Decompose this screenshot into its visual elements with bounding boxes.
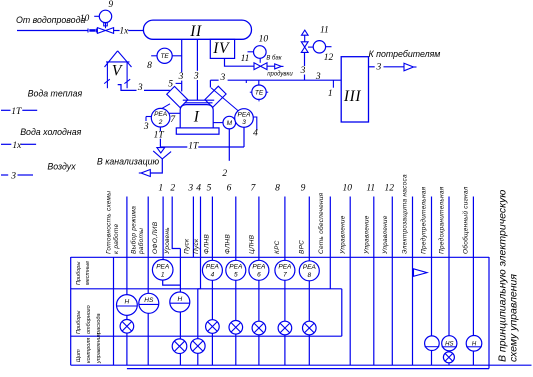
svg-text:Приборы: Приборы bbox=[76, 262, 82, 285]
svg-text:3: 3 bbox=[143, 122, 149, 132]
wire col A bbox=[126, 197, 128, 295]
blowdown valve body bbox=[254, 63, 261, 70]
wire col 5 bbox=[211, 197, 213, 261]
svg-text:к работе: к работе bbox=[112, 223, 120, 254]
svg-text:8: 8 bbox=[275, 184, 280, 194]
svg-text:ЦЛНВ: ЦЛНВ bbox=[249, 234, 256, 254]
svg-text:Предупредительная: Предупредительная bbox=[420, 186, 428, 254]
tank V roof bbox=[105, 51, 118, 67]
lamp col 9 bbox=[303, 321, 317, 335]
svg-text:4: 4 bbox=[253, 128, 258, 138]
svg-text:Воздух: Воздух bbox=[47, 162, 76, 172]
pipe after valve bbox=[114, 30, 120, 32]
svg-text:управления: управления bbox=[96, 333, 102, 364]
svg-text:9: 9 bbox=[108, 0, 113, 10]
svg-text:2: 2 bbox=[170, 184, 175, 194]
wire M down (tap 2) bbox=[228, 129, 230, 161]
svg-text:РЕА: РЕА bbox=[237, 112, 250, 119]
svg-text:Готовность схемы: Готовность схемы bbox=[106, 191, 113, 254]
wire col net bbox=[329, 197, 331, 289]
svg-text:ОФО,ЛИВ: ОФО,ЛИВ bbox=[152, 221, 159, 254]
svg-text:3: 3 bbox=[315, 72, 321, 82]
pipe 1x into tank II bbox=[128, 30, 143, 32]
lamp HS2 bbox=[443, 352, 454, 363]
svg-text:работы: работы bbox=[137, 228, 145, 255]
svg-text:4: 4 bbox=[211, 272, 215, 279]
wire col P2 bbox=[448, 197, 450, 336]
svg-text:Обобщенный сигнал: Обобщенный сигнал bbox=[462, 186, 470, 254]
svg-text:РЕА: РЕА bbox=[278, 264, 291, 271]
svg-text:7: 7 bbox=[251, 184, 257, 194]
svg-text:РЕА: РЕА bbox=[229, 264, 242, 271]
wire col 2 with jog bbox=[172, 197, 180, 249]
svg-text:3: 3 bbox=[242, 119, 246, 126]
svg-text:продувки: продувки bbox=[267, 71, 293, 77]
sensor TE-8 stub bbox=[151, 55, 157, 57]
svg-text:Пуск: Пуск bbox=[193, 238, 200, 254]
PEA3 right stub (4) bbox=[253, 117, 257, 130]
actuator circle 9 bbox=[99, 10, 111, 22]
svg-text:3: 3 bbox=[187, 184, 193, 194]
svg-text:Приборы: Приборы bbox=[76, 311, 82, 334]
hand switch HS2 bbox=[442, 336, 457, 351]
svg-text:К потребителям: К потребителям bbox=[369, 49, 441, 59]
reducer flange symbol bbox=[87, 29, 89, 33]
svg-text:8: 8 bbox=[307, 272, 311, 279]
air vent triangle bbox=[302, 30, 309, 35]
motor stub bbox=[213, 122, 223, 124]
svg-text:Пуск: Пуск bbox=[184, 238, 191, 254]
svg-text:расхода: расхода bbox=[96, 313, 102, 335]
sensor circle PEA-5 bbox=[226, 260, 246, 280]
svg-text:3: 3 bbox=[220, 73, 226, 83]
sensor circle PEA-6 bbox=[249, 260, 269, 280]
drain down wire bbox=[150, 159, 162, 173]
air riser (3) bbox=[304, 52, 306, 66]
svg-text:РЕА: РЕА bbox=[206, 264, 219, 271]
svg-text:1: 1 bbox=[161, 271, 165, 278]
svg-text:HS: HS bbox=[144, 297, 154, 304]
corner into mixer bbox=[209, 80, 211, 87]
svg-text:7: 7 bbox=[170, 115, 176, 125]
drain arrow bbox=[141, 170, 150, 177]
flow arrow to blowdown tank bbox=[267, 65, 275, 67]
apparatus box III bbox=[341, 57, 368, 122]
svg-text:IV: IV bbox=[212, 40, 230, 57]
tap 5 tick bbox=[176, 82, 182, 84]
svg-text:ТЕ: ТЕ bbox=[255, 90, 264, 97]
vent valve stem to vent bbox=[304, 35, 306, 42]
svg-text:РЕА: РЕА bbox=[303, 264, 316, 271]
legend line 1х bbox=[1, 143, 11, 145]
svg-text:11: 11 bbox=[241, 54, 250, 64]
wire: II down-middle leg (3) bbox=[196, 39, 198, 71]
svg-text:3: 3 bbox=[193, 71, 199, 81]
vent valve upper cone bbox=[301, 42, 308, 47]
svg-text:1х: 1х bbox=[119, 26, 129, 36]
TE ticks bbox=[250, 91, 252, 93]
svg-text:ΦЛНВ: ΦЛНВ bbox=[204, 234, 211, 254]
wire col 9 bbox=[308, 197, 310, 261]
svg-text:схему управления: схему управления bbox=[508, 274, 520, 362]
drain funnel small cone bbox=[157, 148, 165, 153]
svg-text:РЕА: РЕА bbox=[156, 263, 169, 270]
hand station H1 bbox=[117, 295, 138, 316]
vent valve lower cone bbox=[301, 47, 308, 52]
tank V left wall bbox=[106, 62, 108, 88]
panel bottom border bbox=[71, 364, 532, 366]
svg-text:Электрозащита насоса: Электрозащита насоса bbox=[402, 174, 409, 254]
lamp row3 a bbox=[172, 339, 187, 354]
row line 2 bbox=[71, 335, 342, 337]
svg-text:В канализацию: В канализацию bbox=[97, 156, 160, 166]
drain funnel big cone bbox=[153, 151, 171, 159]
svg-text:2: 2 bbox=[158, 119, 163, 126]
motor circle M bbox=[223, 116, 236, 129]
row line 1 bbox=[71, 288, 342, 290]
wire valve to actuator 12 bbox=[308, 46, 313, 48]
sensor circle PEA-2 bbox=[151, 108, 170, 127]
svg-text:4: 4 bbox=[196, 184, 201, 194]
lamp row3 b bbox=[191, 339, 206, 354]
impulse line to PEA2 bbox=[162, 104, 171, 109]
svg-text:Сеть обеспечения: Сеть обеспечения bbox=[317, 192, 325, 254]
lamp H1 bbox=[120, 320, 134, 334]
svg-text:ВРС: ВРС bbox=[298, 240, 305, 254]
svg-text:Н: Н bbox=[125, 299, 130, 306]
hand station H3 bbox=[466, 336, 482, 352]
row header divider bbox=[113, 257, 115, 365]
panel left border bbox=[70, 257, 72, 365]
wire col B bbox=[147, 197, 149, 294]
svg-text:1Т: 1Т bbox=[11, 107, 22, 117]
vessel I body bbox=[180, 105, 213, 128]
svg-text:III: III bbox=[343, 88, 362, 105]
sensor circle PEA-4 bbox=[202, 260, 222, 280]
air line from V bbox=[118, 85, 137, 91]
svg-text:8: 8 bbox=[147, 61, 152, 71]
tank V roof base bbox=[106, 61, 130, 63]
svg-text:3: 3 bbox=[376, 63, 382, 73]
svg-text:отборного: отборного bbox=[86, 305, 92, 334]
pipe 1x from water supply (left segment) bbox=[17, 30, 88, 32]
tank V wall hatches bbox=[104, 79, 110, 83]
tank V right wall bbox=[126, 62, 128, 88]
hand station H2 bbox=[170, 292, 190, 312]
svg-text:I: I bbox=[193, 108, 200, 125]
main hot-water pipe to III bbox=[210, 79, 218, 81]
svg-text:3: 3 bbox=[300, 66, 306, 76]
svg-text:Щит: Щит bbox=[76, 349, 82, 362]
sensor circle PEA-8 bbox=[299, 261, 319, 281]
wire col 2/1 merged bbox=[179, 249, 181, 293]
svg-text:Вода теплая: Вода теплая bbox=[28, 89, 83, 99]
svg-text:КРС: КРС bbox=[274, 240, 281, 254]
wire PEA1 jog bbox=[163, 280, 181, 285]
vessel I base plate bbox=[176, 128, 219, 134]
svg-text:2: 2 bbox=[222, 169, 227, 179]
svg-text:контроля: контроля bbox=[86, 338, 92, 363]
svg-text:12: 12 bbox=[324, 53, 334, 63]
svg-text:местные: местные bbox=[85, 261, 91, 285]
controller box IV bbox=[210, 39, 234, 58]
PEA2 down wire 1Т bbox=[159, 127, 161, 131]
svg-text:Управление: Управление bbox=[363, 215, 370, 255]
actuator circle 10 bbox=[253, 46, 266, 59]
panel bottom bus bbox=[127, 368, 489, 370]
svg-text:Вода холодная: Вода холодная bbox=[20, 127, 81, 137]
arrow to electric scheme bbox=[414, 269, 428, 277]
svg-text:Н: Н bbox=[472, 342, 477, 348]
tank II capsule bbox=[143, 20, 251, 39]
wire col 11 bbox=[373, 197, 375, 366]
wire IV to blowdown valve bbox=[225, 59, 255, 66]
svg-text:Управление: Управление bbox=[382, 215, 389, 255]
svg-text:От водопровода: От водопровода bbox=[16, 15, 85, 25]
svg-text:10: 10 bbox=[80, 14, 90, 24]
outlet pipe 3 bbox=[369, 66, 375, 68]
sensor circle PEA-3 bbox=[235, 109, 254, 128]
PEA2 stub to vessel (7) bbox=[169, 112, 180, 114]
svg-text:3: 3 bbox=[137, 83, 143, 93]
tap nub bbox=[245, 80, 247, 83]
sensor circle PEA-1 bbox=[152, 260, 173, 281]
svg-text:ТЕ: ТЕ bbox=[160, 53, 169, 60]
control valve V9 body bbox=[97, 28, 105, 34]
TE-8 wire to leg bbox=[172, 55, 181, 57]
panel right border bbox=[488, 257, 490, 369]
lamp col 8 bbox=[278, 321, 292, 335]
svg-text:РЕА: РЕА bbox=[154, 111, 167, 118]
tap 1 tick bbox=[332, 80, 334, 88]
svg-text:12: 12 bbox=[385, 184, 395, 194]
svg-text:10: 10 bbox=[259, 35, 269, 45]
svg-text:1: 1 bbox=[328, 89, 333, 99]
vessel I lid bbox=[183, 99, 214, 101]
svg-text:6: 6 bbox=[257, 272, 261, 279]
inlet pipe left (rotated rect) bbox=[167, 86, 188, 107]
lamp col 7 bbox=[252, 321, 266, 335]
svg-text:ΦЛНВ: ΦЛНВ bbox=[225, 234, 232, 254]
PEA2 left stub (3) bbox=[146, 116, 152, 118]
svg-text:9: 9 bbox=[301, 184, 306, 194]
hand switch HS1 bbox=[139, 293, 159, 313]
svg-text:1Т: 1Т bbox=[154, 131, 165, 141]
wire col P1 bbox=[431, 197, 433, 336]
wire col 10 bbox=[349, 197, 351, 366]
svg-text:1Т: 1Т bbox=[188, 141, 199, 151]
svg-text:11: 11 bbox=[320, 25, 329, 35]
indicator circle (blank) bbox=[425, 336, 440, 351]
PEA3 down wire bbox=[243, 127, 245, 147]
svg-text:11: 11 bbox=[366, 184, 375, 194]
svg-text:1: 1 bbox=[158, 184, 163, 194]
svg-text:1х: 1х bbox=[12, 141, 22, 151]
warm water line 1Т bbox=[160, 146, 187, 148]
inlet pipe right (rotated rect) bbox=[205, 86, 226, 107]
wire col 1 bbox=[162, 197, 164, 260]
wire col guard bbox=[412, 197, 414, 366]
svg-text:6: 6 bbox=[227, 184, 232, 194]
legend line 3 bbox=[1, 174, 8, 176]
wire: II down-left leg (3) bbox=[181, 39, 183, 72]
svg-text:V: V bbox=[112, 63, 123, 80]
svg-text:Н: Н bbox=[177, 296, 182, 303]
blowdown valve stem bbox=[259, 58, 261, 63]
svg-text:Управление: Управление bbox=[340, 215, 347, 255]
lamp col 5 bbox=[206, 320, 220, 334]
lamp col 6 bbox=[229, 321, 243, 335]
wire col 8 bbox=[284, 197, 286, 261]
outlet arrow bbox=[404, 63, 414, 71]
svg-text:В бак: В бак bbox=[266, 56, 282, 62]
svg-text:Уровень: Уровень bbox=[164, 227, 171, 255]
svg-text:10: 10 bbox=[342, 184, 352, 194]
legend line 1Т bbox=[1, 109, 11, 111]
svg-text:3: 3 bbox=[178, 72, 184, 82]
impulse line to PEA3 bbox=[211, 88, 238, 111]
sensor circle TE (pipe) bbox=[252, 85, 266, 99]
svg-text:М: М bbox=[227, 120, 233, 127]
panel top border bbox=[71, 256, 489, 258]
wire col 3 bbox=[192, 197, 194, 258]
actuator circle 12 bbox=[313, 41, 325, 53]
sensor circle TE-8 bbox=[157, 48, 172, 63]
valve stem + membrane bbox=[105, 23, 107, 28]
svg-text:7: 7 bbox=[283, 272, 287, 279]
wire col 4 bbox=[200, 197, 202, 289]
svg-text:Предохранительная: Предохранительная bbox=[438, 186, 446, 254]
wire col 6 bbox=[235, 197, 237, 261]
svg-text:Выбор режима: Выбор режима bbox=[130, 206, 138, 254]
sensor circle PEA-7 bbox=[275, 260, 295, 280]
TE stem bbox=[258, 80, 260, 85]
svg-text:3: 3 bbox=[10, 171, 16, 181]
svg-text:РЕА: РЕА bbox=[252, 264, 265, 271]
wire col P3 bbox=[472, 197, 474, 336]
wire col 7 bbox=[258, 197, 260, 261]
svg-text:II: II bbox=[189, 23, 202, 40]
svg-text:5: 5 bbox=[234, 272, 238, 279]
rows box right edge bbox=[341, 289, 343, 336]
svg-text:5: 5 bbox=[207, 184, 212, 194]
wire col 12 bbox=[391, 197, 393, 366]
svg-text:HS: HS bbox=[445, 341, 453, 347]
